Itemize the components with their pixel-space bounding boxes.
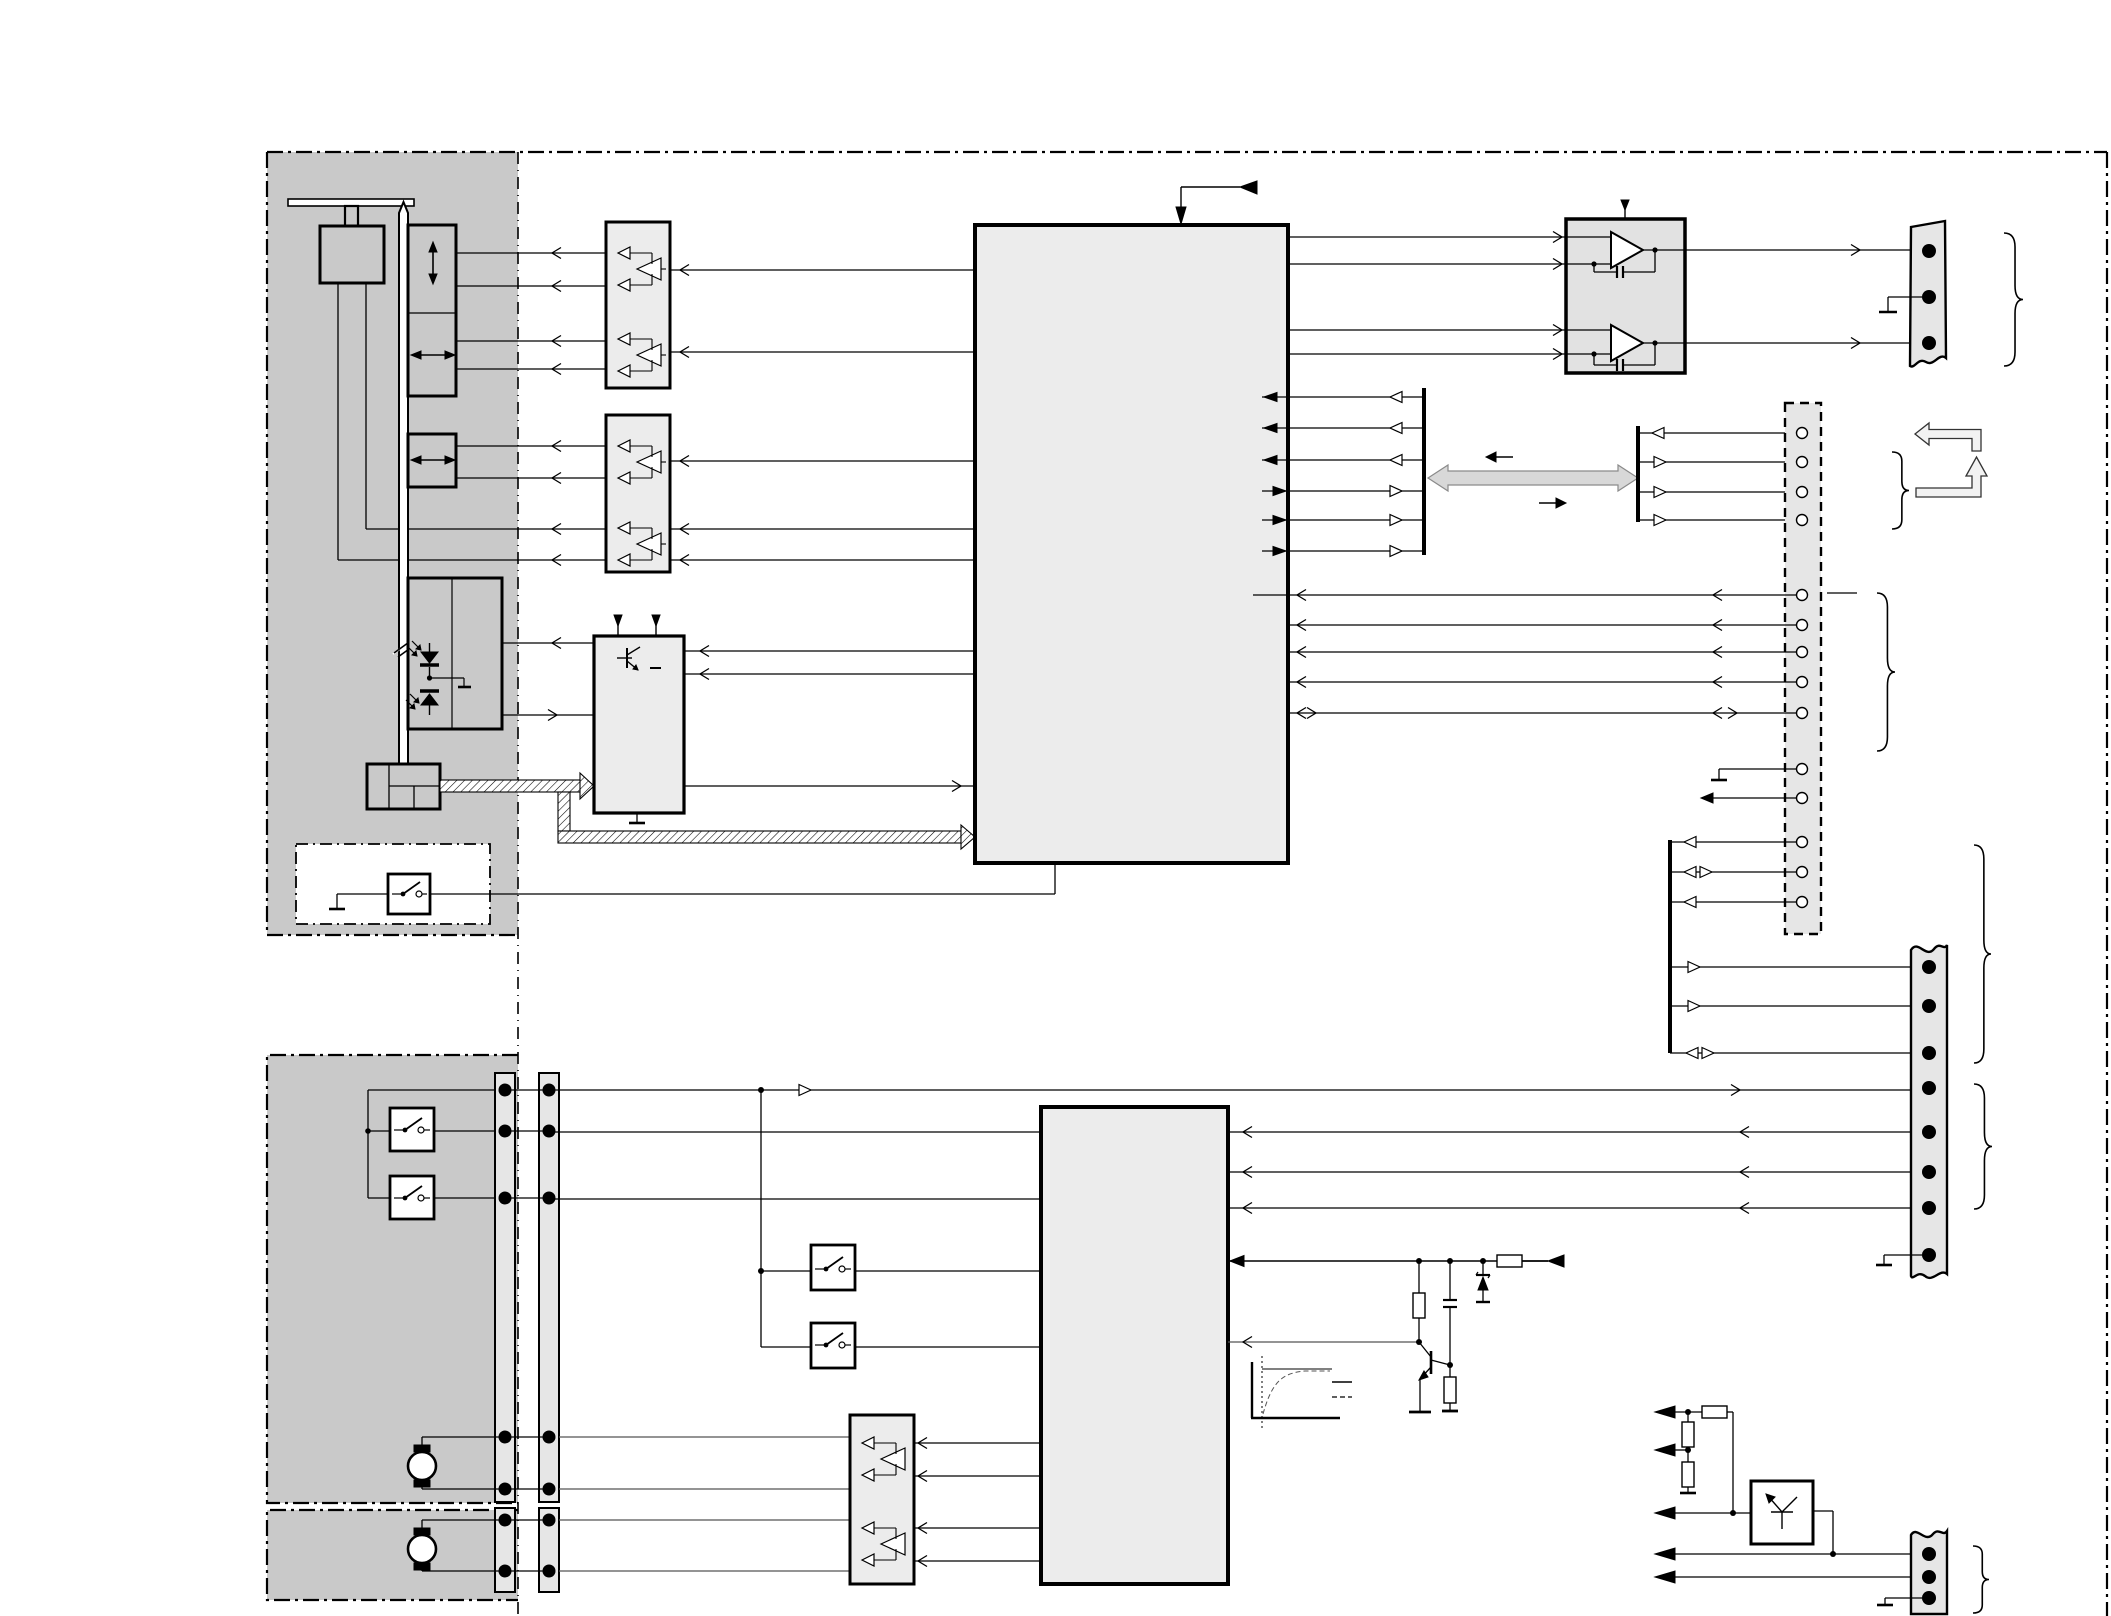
CN2 pin y=652 bbox=[1797, 647, 1808, 658]
supply arrow row 1450 bbox=[1655, 1444, 1675, 1456]
mechanism panel dash-dot bottom edge bbox=[267, 934, 518, 936]
gray data bus double arrow bbox=[1428, 465, 1638, 491]
switch S2 (record tab) bbox=[390, 1108, 434, 1151]
wire main IC to op-amp in1 bbox=[1288, 236, 1566, 238]
strip P1 pin y=1437 bbox=[499, 1431, 512, 1444]
direction arrow right bbox=[1539, 502, 1563, 504]
CN4 pin 1 bbox=[1922, 1547, 1936, 1561]
zener diode D3 bbox=[1482, 1261, 1484, 1275]
CN2 pin y=842 bbox=[1797, 837, 1808, 848]
strip link y=1437 bbox=[505, 1436, 549, 1438]
photodiode ground bbox=[430, 677, 465, 679]
CN1 pin2 ground bbox=[1888, 296, 1922, 298]
switch S4 (tape end) bbox=[811, 1245, 855, 1290]
main IC U1 (system control / servo) bbox=[975, 225, 1288, 863]
connector CN1 (audio out, 3-pin) bbox=[1910, 221, 1946, 366]
CN4 pin 2 bbox=[1922, 1570, 1936, 1584]
main IC power arrow bbox=[1180, 187, 1182, 211]
wire IC to CN2 row 595 bbox=[1288, 594, 1797, 596]
switch common wire bbox=[367, 1090, 369, 1198]
wire op-amp A to connector bbox=[1685, 249, 1911, 251]
CN3 pin y=1006 bbox=[1922, 999, 1936, 1013]
photo IC ground bbox=[636, 813, 638, 822]
wire U7 to lower IC row 1528 bbox=[914, 1527, 1041, 1529]
buffer IC U3 (sensor buffer lower) bbox=[606, 415, 670, 572]
wire bus to CN2 row 520 bbox=[1638, 519, 1797, 521]
wire IC to bus row 428 bbox=[1288, 427, 1424, 429]
photo IC power pin 1 bbox=[617, 625, 619, 636]
wire mechanism to buffer y=478 bbox=[456, 477, 606, 479]
wire op-amp B to connector bbox=[1685, 342, 1911, 344]
wire IC to CN2 row 625 bbox=[1288, 624, 1797, 626]
tape head stem bbox=[345, 206, 358, 226]
strip P2 pin y=1090 bbox=[543, 1084, 556, 1097]
wire photo IC output to main IC row 786 bbox=[684, 785, 975, 787]
wire photo IC to main IC row 674 bbox=[684, 673, 975, 675]
wire strip to CN3 row 1090 (B+) bbox=[549, 1089, 1911, 1091]
wire main IC to op-amp in2 bbox=[1288, 263, 1566, 265]
wire lower IC to CN3 row 1132 bbox=[1228, 1131, 1911, 1133]
photodiode D1 bbox=[429, 643, 431, 652]
hatched ribbon cable horizontal lower bbox=[558, 831, 961, 843]
buffer IC U2 (sensor buffer upper) bbox=[606, 222, 670, 388]
op-amp U5 power pin bbox=[1624, 209, 1626, 219]
enter arrow left (eject) bbox=[1915, 423, 1981, 451]
photodiode D2 bbox=[420, 689, 439, 692]
tape head box bbox=[320, 226, 384, 283]
needle break marks bbox=[393, 638, 415, 654]
strip P1 pin y=1489 bbox=[499, 1483, 512, 1496]
wire mechanism to buffer y=446 bbox=[456, 445, 606, 447]
photodiode D2 light arrows bbox=[410, 694, 418, 702]
CN2 pin y=713 bbox=[1797, 708, 1808, 719]
motor driver buffer U7 bbox=[850, 1415, 914, 1584]
lower IC U6 (motor driver) bbox=[1041, 1107, 1228, 1584]
resistor R5 (divider top) bbox=[1687, 1412, 1689, 1422]
wire strip to lower IC row 1199 bbox=[549, 1198, 1041, 1200]
wire lower IC to CN3 row 1208 bbox=[1228, 1207, 1911, 1209]
horizontal double arrow glyph bbox=[419, 354, 447, 356]
connector CN4 (power, 3-pin) bbox=[1911, 1531, 1947, 1614]
CN3 pin y=1255 bbox=[1922, 1248, 1936, 1262]
photodiode box bbox=[408, 578, 502, 729]
CN2 pin y=682 bbox=[1797, 677, 1808, 688]
CN2 pin y=492 bbox=[1797, 487, 1808, 498]
wire mechanism to buffer y=341 bbox=[456, 340, 606, 342]
motor M2 (loading) bbox=[408, 1535, 436, 1563]
CN1 pin 1 bbox=[1922, 244, 1936, 258]
cassette switch ground bbox=[337, 893, 388, 895]
brace CN4 group bbox=[1973, 1546, 1989, 1613]
wire reset IC to CN4 bbox=[1813, 1510, 1833, 1512]
sense feedback wire row 1342 bbox=[1228, 1341, 1419, 1343]
CN4 pin 3 bbox=[1922, 1591, 1936, 1605]
wire M1+ to strip bbox=[421, 1437, 423, 1445]
wire bus to CN2 row 492 bbox=[1638, 491, 1797, 493]
wire strip to motor buffer row 1571 bbox=[559, 1570, 850, 1572]
op-amp A bbox=[1611, 232, 1643, 268]
photodiode D1 light arrows bbox=[412, 641, 420, 649]
CN2 stub line right of pin 595 bbox=[1827, 592, 1857, 594]
op-amp block U5 bbox=[1566, 219, 1685, 373]
photo IC transistor glyph bbox=[626, 648, 628, 668]
wire IC to bus row 491 bbox=[1288, 490, 1424, 492]
motor panel background (bottom-left upper) bbox=[267, 1055, 518, 1503]
photo IC power pin 2 bbox=[655, 625, 657, 636]
vertical double arrow glyph bbox=[432, 250, 434, 276]
wire buffer U3 row 529 to main IC bbox=[670, 528, 975, 530]
outer dash-dot frame right edge bbox=[2106, 152, 2108, 1616]
CN2 pin y=769 bbox=[1797, 764, 1808, 775]
wire mechanism to buffer y=286 bbox=[456, 285, 606, 287]
wire buffer U3 row 560 to main IC bbox=[670, 559, 975, 561]
hatched ribbon vertical branch bbox=[558, 792, 570, 831]
strip link lower y=1520 bbox=[505, 1519, 549, 1521]
CN3 ground pin 1255 bbox=[1884, 1254, 1922, 1256]
wire buffer U2 ch B to main IC bbox=[670, 351, 975, 353]
reset IC glyph bbox=[1771, 1511, 1793, 1513]
strip P2 pin y=1131 bbox=[543, 1125, 556, 1138]
buffer U7 channel A bbox=[862, 1437, 874, 1449]
motor panel dash-dot border lower bbox=[267, 1510, 518, 1600]
outer dash-dot frame top edge bbox=[267, 151, 2107, 153]
resistor R1 (horizontal) bbox=[1522, 1260, 1548, 1262]
resistor R2 (vertical) bbox=[1418, 1261, 1420, 1293]
wire IC to bus row 520 bbox=[1288, 519, 1424, 521]
cassette switch dash-dot box bbox=[296, 844, 490, 924]
strip P4 pin y=1571 bbox=[543, 1565, 556, 1578]
horizontal double arrow glyph 2 bbox=[419, 459, 447, 461]
strip P1 pin y=1131 bbox=[499, 1125, 512, 1138]
CN2 pin 798 source arrow bbox=[1713, 797, 1797, 799]
connector CN2 (board-to-board, dashed) bbox=[1785, 403, 1821, 934]
wire M1- to strip bbox=[421, 1487, 423, 1489]
CN2 pin y=520 bbox=[1797, 515, 1808, 526]
boundary dash-dot vertical line bbox=[517, 152, 519, 1616]
resistor R3 (emitter) bbox=[1449, 1365, 1451, 1377]
CN2 pin 769 ground bbox=[1719, 768, 1797, 770]
CN3 pin y=967 bbox=[1922, 960, 1936, 974]
wire cassette switch to main IC bbox=[430, 893, 1055, 895]
strip link lower y=1571 bbox=[505, 1570, 549, 1572]
wire bus to CN2 row 872 bbox=[1670, 871, 1797, 873]
wire main IC to op-amp in3 bbox=[1288, 329, 1566, 331]
wire bus to CN3 row 1053 bbox=[1670, 1052, 1911, 1054]
wire bus to CN3 row 967 bbox=[1670, 966, 1911, 968]
CN3 pin y=1208 bbox=[1922, 1201, 1936, 1215]
flex connector box bbox=[367, 764, 440, 809]
strip link y=1489 bbox=[505, 1488, 549, 1490]
wire strip to motor buffer row 1437 bbox=[559, 1436, 850, 1438]
main IC internal stub row 595 bbox=[1253, 594, 1288, 596]
CN2 pin y=433 bbox=[1797, 428, 1808, 439]
wire main IC to op-amp in4 bbox=[1288, 353, 1566, 355]
CN3 pin y=1053 bbox=[1922, 1046, 1936, 1060]
motor M1 (capstan) bbox=[408, 1452, 436, 1480]
B+ branch vertical bbox=[760, 1090, 762, 1347]
wire M2+ to strip bbox=[421, 1520, 423, 1528]
CN2 pin y=462 bbox=[1797, 457, 1808, 468]
bus bar lower (to main connector) bbox=[1668, 840, 1672, 1053]
motor panel background (bottom-left lower) bbox=[267, 1510, 518, 1600]
mechanism panel dash-dot left edge bbox=[266, 152, 268, 935]
wire photodiode to photo IC row 643 bbox=[502, 642, 593, 644]
wire IC to bus row 397 bbox=[1288, 396, 1424, 398]
strip P2 pin y=1437 bbox=[543, 1431, 556, 1444]
buffer U3 channel A bbox=[618, 440, 630, 452]
CN1 pin 3 bbox=[1922, 336, 1936, 350]
capacitor C1 bbox=[1449, 1261, 1451, 1300]
bus bar right bbox=[1636, 426, 1640, 522]
wire mechanism to buffer y=253 bbox=[456, 252, 606, 254]
enter arrow up (load) bbox=[1916, 457, 1987, 497]
chevron on head wire B bbox=[552, 555, 561, 566]
wire bus to CN2 row 462 bbox=[1638, 461, 1797, 463]
strip link y=1131 bbox=[505, 1130, 549, 1132]
photo IC U4 (laser/LED driver) bbox=[594, 636, 684, 813]
buffer U2 channel B bbox=[618, 333, 630, 345]
CN1 pin 2 bbox=[1922, 290, 1936, 304]
strip P4 pin y=1520 bbox=[543, 1514, 556, 1527]
CN2 pin y=872 bbox=[1797, 867, 1808, 878]
resistor R4 (horizontal) bbox=[1702, 1406, 1727, 1418]
wire lower IC to CN3 row 1172 bbox=[1228, 1171, 1911, 1173]
transistor Q1 bbox=[1419, 1342, 1431, 1357]
connector strip P4 (board side lower) bbox=[539, 1508, 559, 1592]
strip link y=1090 bbox=[505, 1089, 549, 1091]
connector strip P2 (board side upper) bbox=[539, 1073, 559, 1502]
direction arrow left bbox=[1489, 456, 1513, 458]
resistor R6 (divider bottom) bbox=[1682, 1462, 1694, 1487]
hatched ribbon arrow into photo IC bbox=[580, 773, 594, 799]
wire buffer U3 ch A to main IC bbox=[670, 460, 975, 462]
power sense line row 1261 bbox=[1228, 1260, 1548, 1262]
buffer U2 channel A bbox=[618, 247, 630, 259]
supply arrow row 1554 to CN4 bbox=[1655, 1548, 1675, 1560]
wire R4 down to reset IC bbox=[1732, 1412, 1734, 1513]
wire head to buffer row B bbox=[337, 283, 339, 560]
CN3 pin y=1088 bbox=[1922, 1081, 1936, 1095]
wire strip to lower IC row 1132 bbox=[549, 1131, 1041, 1133]
CN3 pin y=1172 bbox=[1922, 1165, 1936, 1179]
motor panel dash-dot border upper bbox=[267, 1055, 518, 1503]
main IC internal bus stubs (data to transport connector) bbox=[1262, 396, 1288, 398]
wire bus to CN2 row 842 bbox=[1670, 841, 1797, 843]
wire M2- to strip bbox=[421, 1570, 423, 1571]
wire S4 to lower IC bbox=[855, 1270, 1041, 1272]
wire head to buffer row A bbox=[365, 283, 367, 529]
strip P2 pin y=1489 bbox=[543, 1483, 556, 1496]
brace CN3 lower group bbox=[1974, 1084, 1992, 1209]
CN4 ground bbox=[1885, 1597, 1922, 1599]
wire S2 to strip bbox=[434, 1130, 505, 1132]
power source arrow bbox=[1548, 1255, 1564, 1267]
strip P1 pin y=1198 bbox=[499, 1192, 512, 1205]
photodiode junction node bbox=[427, 675, 432, 680]
photo IC minus sign bbox=[650, 667, 661, 669]
wire U7 to lower IC row 1443 bbox=[914, 1442, 1041, 1444]
hatched ribbon cable horizontal upper bbox=[440, 780, 581, 792]
brace CN3 upper group bbox=[1974, 845, 1991, 1063]
strip P3 pin y=1571 bbox=[499, 1565, 512, 1578]
tape head bar bbox=[288, 199, 414, 206]
arrow box tracking bbox=[408, 434, 456, 487]
CN2 pin y=595 bbox=[1797, 590, 1808, 601]
buffer U3 channel B bbox=[618, 522, 630, 534]
buffer U7 channel B bbox=[862, 1522, 874, 1534]
supply arrow row 1513 bbox=[1655, 1507, 1675, 1519]
strip P1 pin y=1090 bbox=[499, 1084, 512, 1097]
switch S3 (cassette type) bbox=[390, 1176, 434, 1219]
CN2 pin y=625 bbox=[1797, 620, 1808, 631]
position needle shaft bbox=[399, 202, 408, 764]
wire strip to motor buffer row 1520 bbox=[559, 1519, 850, 1521]
hatched ribbon arrow into main IC bbox=[961, 825, 975, 849]
wire IC to CN2 row 682 bbox=[1288, 681, 1797, 683]
reset IC U8 bbox=[1751, 1481, 1813, 1544]
wire IC to bus row 460 bbox=[1288, 459, 1424, 461]
wire U7 to lower IC row 1561 bbox=[914, 1560, 1041, 1562]
arrow box vertical/horizontal (head azimuth) bbox=[408, 225, 456, 396]
wire U7 to lower IC row 1476 bbox=[914, 1475, 1041, 1477]
wire S5 to lower IC bbox=[855, 1346, 1041, 1348]
cassette switch S1 bbox=[388, 874, 430, 914]
strip P3 pin y=1520 bbox=[499, 1514, 512, 1527]
CN2 pin y=902 bbox=[1797, 897, 1808, 908]
wire buffer U2 ch A to main IC bbox=[670, 269, 975, 271]
wire bus to CN2 row 902 bbox=[1670, 901, 1797, 903]
wire photo IC to main IC row 651 bbox=[684, 650, 975, 652]
switch S5 (tape start) bbox=[811, 1323, 855, 1368]
chevron on head wire A bbox=[552, 524, 561, 535]
wire photodiode to photo IC row 715 bbox=[502, 714, 593, 716]
brace CN1 group bbox=[2004, 233, 2023, 366]
wire IC to CN2 row 652 bbox=[1288, 651, 1797, 653]
brace CN2 data group bbox=[1877, 593, 1895, 751]
supply arrow row 1412 bbox=[1655, 1406, 1675, 1418]
bus bar left (control bus) bbox=[1422, 388, 1426, 555]
connector CN3 (main harness) bbox=[1911, 945, 1947, 1278]
wire S3 to strip bbox=[434, 1197, 505, 1199]
connector strip P3 (mech side lower) bbox=[495, 1508, 515, 1592]
op-amp B bbox=[1611, 325, 1643, 361]
wire mechanism to buffer y=369 bbox=[456, 368, 606, 370]
wire strip to motor buffer row 1489 bbox=[559, 1488, 850, 1490]
wire bus to CN2 row 433 bbox=[1638, 432, 1797, 434]
charge curve inset graph bbox=[1251, 1362, 1253, 1418]
wire IC to CN2 row 713 (bidirectional) bbox=[1288, 712, 1797, 714]
CN3 pin y=1132 bbox=[1922, 1125, 1936, 1139]
wire IC to bus row 551 bbox=[1288, 550, 1424, 552]
wire bus to CN3 row 1006 bbox=[1670, 1005, 1911, 1007]
CN2 pin y=798 bbox=[1797, 793, 1808, 804]
brace CN2 control group bbox=[1892, 452, 1909, 529]
supply arrow row 1577 to CN4 bbox=[1655, 1571, 1675, 1583]
connector strip P1 (mech side upper) bbox=[495, 1073, 515, 1502]
strip link y=1198 bbox=[505, 1197, 549, 1199]
mechanism panel background (cassette deck block, top-left) bbox=[267, 152, 518, 935]
strip P2 pin y=1198 bbox=[543, 1192, 556, 1205]
